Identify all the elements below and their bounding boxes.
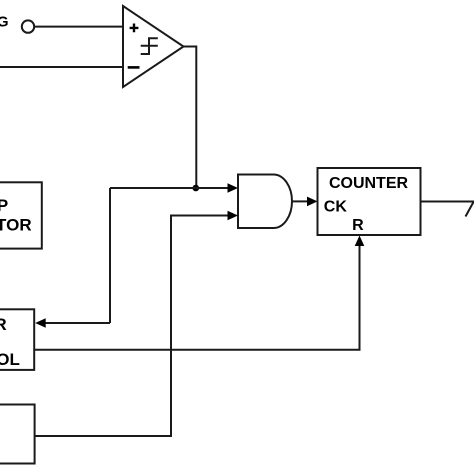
block 3 (bottom left) <box>0 405 35 464</box>
bus slash <box>466 201 474 217</box>
svg-text:COUNTER: COUNTER <box>329 175 409 192</box>
wire block3 output to AND gate input 2 <box>35 216 229 437</box>
wire to comparator - input <box>0 66 123 68</box>
svg-text:CONTROL: CONTROL <box>0 350 20 369</box>
wire junction to AND gate input 1 <box>110 187 229 189</box>
wire into control block with arrow <box>45 322 110 324</box>
wire comparator output <box>184 47 197 189</box>
svg-text:CK: CK <box>324 198 348 215</box>
wire to comparator + input <box>34 26 123 28</box>
ramp generator block <box>0 182 42 248</box>
input terminal circle <box>22 20 34 32</box>
svg-text:SIG: SIG <box>0 14 9 31</box>
svg-text:R: R <box>352 217 364 234</box>
wire AND output to counter CK <box>292 200 307 202</box>
wire counter output bus <box>421 201 474 203</box>
AND gate <box>238 175 292 229</box>
svg-text:COUNTER: COUNTER <box>0 315 7 334</box>
svg-text:GENERATOR: GENERATOR <box>0 216 32 235</box>
comparator U1 (Schmitt trigger) <box>123 6 184 87</box>
wire control block to counter R input <box>34 246 359 350</box>
node junction dot <box>193 185 200 192</box>
wire feedback vertical to control block <box>109 188 111 323</box>
svg-text:RAMP: RAMP <box>0 196 8 215</box>
counter block <box>318 168 421 235</box>
control block <box>0 309 34 370</box>
